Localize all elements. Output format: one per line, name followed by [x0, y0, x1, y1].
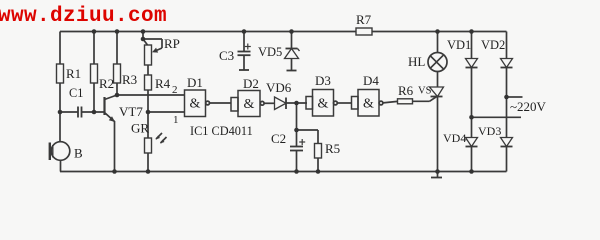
- diode VD6: [275, 97, 287, 110]
- potentiometer RP: [142, 32, 144, 40]
- resistor R2: [93, 32, 95, 65]
- gate D4: [358, 90, 379, 117]
- wire AC stub bottom: [472, 116, 522, 118]
- wire D3 out to D4: [337, 102, 351, 104]
- svg-text:VD3: VD3: [478, 124, 501, 138]
- gate D2: [238, 91, 260, 117]
- diode VD4: [471, 117, 473, 137]
- svg-text:C1: C1: [69, 86, 83, 100]
- wire D1 out to D2: [210, 102, 232, 104]
- wire collector to pin2: [117, 94, 185, 96]
- svg-text:HL: HL: [408, 54, 425, 69]
- diode VD1: [471, 32, 473, 59]
- svg-text:1: 1: [173, 114, 179, 126]
- node RP tap: [141, 37, 146, 42]
- label C2 plus: [299, 141, 305, 143]
- capacitor C3: [243, 32, 245, 52]
- node AC top: [504, 95, 509, 100]
- ground: [437, 172, 439, 178]
- node rail VD4: [469, 169, 474, 174]
- svg-text:2: 2: [172, 84, 178, 96]
- label C3 plus: [245, 46, 251, 48]
- capacitor C1: [60, 111, 78, 113]
- wire top rail left segment: [60, 31, 356, 33]
- svg-text:&: &: [190, 97, 201, 112]
- svg-text:VT7: VT7: [119, 104, 143, 119]
- svg-text:C2: C2: [271, 131, 286, 146]
- svg-text:C3: C3: [219, 48, 234, 63]
- resistor R4: [147, 65, 149, 75]
- microphone B: [59, 112, 61, 142]
- node top rail R2: [92, 29, 97, 34]
- watermark www.dziuu.com: [0, 5, 167, 28]
- ground: [239, 69, 249, 71]
- resistor R1: [59, 32, 61, 65]
- svg-text:&: &: [244, 97, 255, 112]
- svg-text:RP: RP: [164, 36, 180, 51]
- wire D2 out to VD6: [264, 102, 274, 104]
- gate D3 input tie: [306, 97, 313, 110]
- svg-text:R3: R3: [122, 72, 137, 87]
- node AC bottom: [469, 115, 474, 120]
- node rail R5: [316, 169, 321, 174]
- svg-text:VD2: VD2: [481, 38, 505, 52]
- gate D3: [313, 90, 334, 117]
- wire top rail right segment: [372, 31, 507, 33]
- svg-text:R1: R1: [66, 66, 81, 81]
- wire D4 out to R6: [383, 101, 398, 103]
- svg-text:D4: D4: [363, 73, 379, 88]
- svg-text:IC1 CD4011: IC1 CD4011: [190, 124, 253, 138]
- photoresistor GR: [147, 112, 149, 138]
- node top rail RP: [141, 29, 146, 34]
- resistor R6: [398, 99, 413, 104]
- svg-text:R4: R4: [155, 76, 171, 91]
- node top rail VD5: [289, 29, 294, 34]
- wire AC stub top: [507, 96, 523, 98]
- gate D1: [185, 90, 206, 117]
- svg-text:R6: R6: [398, 83, 414, 98]
- svg-text:VD1: VD1: [447, 38, 471, 52]
- svg-text:&: &: [363, 97, 374, 112]
- node R4-GR: [146, 110, 151, 115]
- ground: [287, 70, 297, 72]
- svg-text:~220V: ~220V: [510, 99, 547, 114]
- svg-text:D1: D1: [187, 75, 203, 90]
- svg-text:VD5: VD5: [258, 45, 282, 59]
- node C2-R5: [294, 128, 299, 133]
- diode VD2: [506, 32, 508, 59]
- svg-text:R2: R2: [99, 76, 114, 91]
- svg-text:R5: R5: [325, 141, 340, 156]
- node base R2: [92, 110, 97, 115]
- gate D4 input tie: [352, 97, 359, 110]
- wire bottom rail: [60, 171, 507, 173]
- node VD6 out: [294, 101, 299, 106]
- node top rail VD1: [469, 29, 474, 34]
- svg-text:VD6: VD6: [266, 80, 292, 95]
- lamp HL: [437, 32, 439, 53]
- resistor R7: [356, 28, 372, 35]
- transistor VT7: [103, 97, 105, 115]
- wire node to pin1: [148, 111, 185, 113]
- node top rail HL: [435, 29, 440, 34]
- resistor R5: [297, 129, 319, 131]
- svg-text:D3: D3: [315, 73, 331, 88]
- svg-text:&: &: [318, 97, 329, 112]
- svg-text:D2: D2: [243, 76, 259, 91]
- node top rail R3: [115, 29, 120, 34]
- wire R6 to VS gate: [413, 100, 430, 102]
- svg-text:R7: R7: [356, 12, 372, 27]
- node collector: [115, 93, 120, 98]
- svg-text:VS: VS: [418, 86, 432, 97]
- svg-text:GR: GR: [131, 121, 149, 136]
- zener VD5: [291, 32, 293, 49]
- node rail emitter: [112, 169, 117, 174]
- svg-text:B: B: [74, 146, 83, 161]
- diode VD3: [506, 97, 508, 138]
- thyristor VS: [437, 72, 439, 88]
- node rail C2: [294, 169, 299, 174]
- resistor R3: [116, 32, 118, 65]
- svg-text:VD4: VD4: [443, 131, 466, 145]
- node rail VS: [435, 169, 440, 174]
- gate D2 input tie: [231, 98, 238, 112]
- node rail GR: [146, 169, 151, 174]
- node top rail C3: [242, 29, 247, 34]
- capacitor C2: [296, 103, 298, 130]
- node base left: [58, 110, 63, 115]
